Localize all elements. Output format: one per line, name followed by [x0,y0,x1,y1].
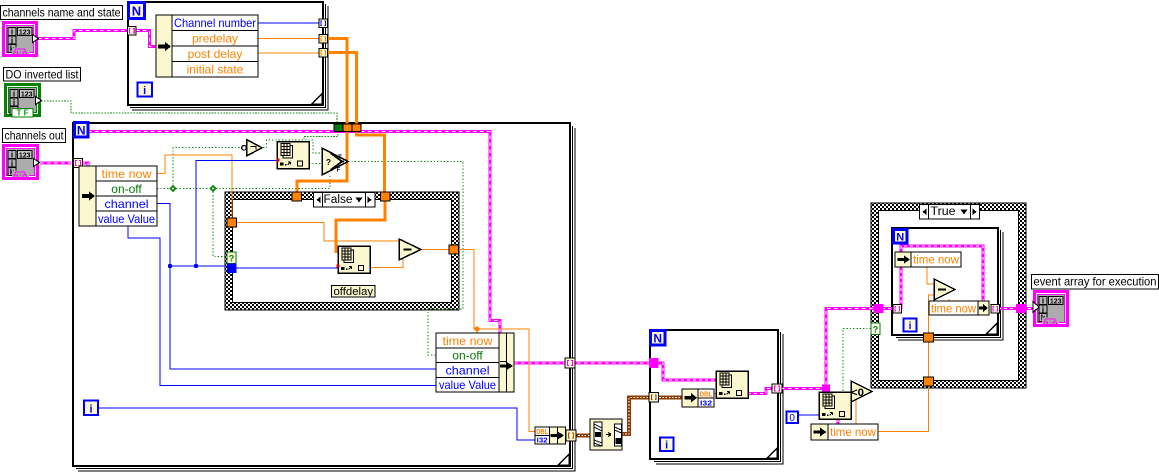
tunnel: L1 left input (pink brackets) [128,27,137,36]
svg-text:?: ? [326,157,331,167]
selector label: case C1 False [314,193,376,208]
wire: post delay row to L1 tunnel (orange) [258,52,319,54]
svg-text:offdelay: offdelay [334,286,374,298]
tunnel: L3 left brown brackets [649,393,659,403]
svg-text:N: N [896,232,904,244]
unbundle U7: time now (below True case) [811,424,878,440]
label: channels name and state [1,6,123,20]
junction: green diamond 1 [169,185,177,193]
constant: 0 [787,412,799,424]
wire: channel branch to case C1 blue tunnel (blue) [170,265,230,267]
svg-text:T: T [338,155,342,161]
svg-text:on-off: on-off [111,182,142,196]
wire: time now from U2 to case C1 left tunnel (orange) [157,155,232,219]
svg-text:initial state: initial state [187,63,244,77]
wire: U3 DBL stub to index array I3 (orange) [714,393,717,395]
unbundle U1: Channel number/predelay/post delay/initial state [156,15,258,77]
svg-text:channels out: channels out [5,129,65,143]
terminal: channels name and state (pink array control) [3,22,38,55]
wire: pink stub I4 to unbundle U7 [837,419,839,425]
svg-text:I32: I32 [700,401,712,408]
i box: L4 iteration terminal [904,319,917,333]
tunnel: L3 right pink brackets [772,384,782,393]
wire: channels name and state to L1 tunnel (pink array) [38,31,128,39]
i box: L3 iteration terminal [660,438,674,452]
subtract function 2 (inside L4) [934,279,955,300]
for-loop L4 frame (inside True case) [892,228,1003,340]
wire: predelay array inside L2 to case C1 tunnel (orange thick) [297,130,347,193]
tunnel: case C1 left time now (orange) [227,218,237,227]
terminal: DO inverted list (green boolean array control) [5,84,41,117]
svg-text:?: ? [229,254,235,264]
tunnel: L2 top orange solid (predelay in) [343,124,352,132]
label: offdelay [332,286,376,298]
tunnel: case C1 right offdelay out (orange) [449,245,459,254]
wire: U5 time now to subtract2 x input (orange) [927,267,934,284]
wire: on-off branch to diamond 2 and select f input (green dotted) [173,174,330,189]
N box: L3 count terminal [651,331,666,346]
wire: subtract output to case C1 right tunnel (orange) [421,249,450,251]
svg-text:time now: time now [102,167,152,181]
index array I1 [277,142,310,169]
unbundle U3: cluster to DBL + I32 [682,389,714,408]
wire: L4 output through True case to indicator (pink array) [998,308,1033,310]
svg-text:predelay: predelay [192,32,238,46]
wire: predelay array to index array I2 (orange thick) [336,200,385,253]
bundle B1: time now/on-off/channel/value Value [436,333,514,392]
NOT gate [242,140,262,157]
N box: L1 count terminal [129,3,145,19]
terminal: event array for execution (pink array indicator) [1033,291,1068,325]
wire: index array I3 output to L3 right tunnel (pink) [748,389,773,394]
wire: channel from U2 down to bundle B1 (blue) [157,204,436,370]
svg-text:time now: time now [931,302,976,316]
sort 1D array icon [590,419,622,450]
unbundle U5: time now (inside L4) [895,252,961,267]
wire: L3 output up to True case (pink array) [781,309,874,389]
tunnel: L2 right event array out (pink brackets) [565,358,575,368]
wire: L1 tunnel to unbundle U1 (pink) [136,31,157,47]
wire: less-than result to True case selector tunnel (green dotted) [843,329,871,393]
wire: channel branch up to index array I1 (blue) [196,161,277,267]
svg-text:time now: time now [830,425,876,439]
svg-text:T F: T F [17,109,29,118]
N box: L4 count terminal [894,230,908,244]
wire: True case tunnel to L4 tunnel (pink) [882,308,894,310]
selector label: case C2 True [920,205,980,220]
i box: L1 iteration terminal [138,83,153,98]
tunnel: L2 top orange solid 2 (post delay in) [352,124,361,132]
tunnel: L4 left pink brackets [893,305,902,314]
wire: offdelay value to bundle B1 time now and DBL bundle (orange) [457,250,535,432]
svg-text:DBL: DBL [536,429,549,436]
svg-text:channel: channel [446,363,490,377]
svg-text:i: i [665,440,668,452]
wire: L2 tunnel to unbundle U2 stub (pink) [82,163,88,166]
index array I3 (inside L3) [716,371,748,398]
wire: L3 tunnel to unbundle U3 (brown) [656,397,682,399]
svg-text:N: N [132,4,141,19]
N box: L2 count terminal [75,123,89,138]
terminal: channels out (pink array control) [3,145,39,178]
junction: blue dot 1 [168,264,172,268]
wire: L4 inside pink loop route to bundle B6 [901,246,983,309]
tunnel: L3 left pink solid [649,358,659,368]
wire: bundle B1 output to L3 (pink array) [514,362,651,364]
tunnel: case C2 left pink solid [874,304,884,313]
case structure C1 border (False case) [225,192,459,310]
svg-text:channel: channel [105,197,149,211]
unbundle U2: time now/on-off/channel/value Value [79,166,157,226]
junction: blue dot 2 [194,264,198,268]
wire: subtract2 output stub into bundle B6 (orange) [948,299,950,302]
wire: sort output to L3 tunnel (brown) [622,398,651,435]
tunnel: case C1 top post delay (orange) [381,192,391,201]
svg-text:N: N [653,332,662,346]
i box: L2 iteration terminal [84,401,98,416]
select function [322,148,348,175]
tunnel: case C1 selector ? (green) [227,252,236,264]
tunnel: case C2 right pink solid [1016,304,1026,313]
index array I4 (event lookup) [819,392,851,419]
tunnel: L2 left channels out (pink brackets) [74,159,83,168]
wire: on-off to NOT gate (green dotted) [157,148,242,189]
svg-text:value Value: value Value [439,378,496,392]
svg-text:False: False [324,194,353,206]
less-than-0 comparison [851,381,872,402]
wire: post delay array inside L2 to case C1 tunnel (orange thick) [357,130,385,193]
tunnel: L1 right Channel number (blue brackets) [319,19,328,28]
wire: True case bottom tunnel to L4 bottom tunnel (orange) [928,342,930,378]
wire: channels out to L2 tunnel (pink array) [40,162,71,164]
junction: pink wire junction at x=826 [822,385,830,393]
wire: DO inverted list boolean array to L2 tunnel (green) [41,101,337,124]
wire: iteration i to DBL-I32 bundle (blue) [98,408,535,440]
svg-text:event array for execution: event array for execution [1034,275,1157,289]
wire: index array I1 output to select (green dotted) [309,163,322,165]
index array I2 (offdelay lookup) [337,246,371,273]
svg-text:time now: time now [443,334,493,348]
svg-text:channels name and state: channels name and state [3,6,121,20]
wire: on-off branch down to case tunnel ? (green dotted) [213,189,227,257]
svg-text:I32: I32 [537,438,548,445]
subtract function 1 [399,239,421,260]
tunnel: L1 right predelay (orange brackets) [319,35,328,44]
for-loop L2 frame (big middle loop) [73,123,575,471]
label: event array for execution [1032,275,1159,290]
tunnel: L2 right DBL-I32 cluster out (brown brackets) [566,430,576,441]
svg-text:<0: <0 [851,387,864,399]
for-loop L1 frame (top-left) [128,2,328,110]
tunnel: L2 top green solid (DO inverted list in) [334,124,343,132]
svg-text:F: F [337,168,341,174]
wire: pink branch down into index array I4 [825,386,827,392]
wire: 0 constant to index array I4 (blue) [798,414,819,416]
svg-text:?: ? [873,325,879,335]
wire: Channel number row to L1 tunnel (blue) [258,22,319,24]
svg-text:True: True [931,206,956,218]
svg-text:on-off: on-off [452,349,483,363]
for-loop L3 frame (bottom middle) [650,330,783,464]
svg-text:i: i [143,85,146,97]
wire: boolean array inside L2 from tunnel (green) [304,131,338,141]
wire: index array I2 output to subtract y input (orange) [370,259,403,268]
wire: case C1 blue tunnel to index array I2 (blue) [235,267,338,269]
bundle B3: DBL + I32 to cluster [535,427,566,445]
wire: select output to bundle on-off (green dotted) [348,162,463,356]
tunnel: case C2 selector ? (green) [871,323,880,335]
svg-text:i: i [909,321,912,332]
svg-text:value Value: value Value [98,212,155,226]
wire: case C1 left tunnel to subtract x input (orange) [235,223,400,242]
tunnel: case C1 top predelay (orange) [292,192,302,201]
tunnel: L1 right post delay (orange brackets) [319,49,328,58]
wire: post delay array to L2 tunnel (orange thick) [327,53,357,126]
wire: L3 inside pink to index array I3 [656,363,716,380]
wire: value Value from U2 to bundle B1 (blue) [128,226,436,386]
wire: predelay row to L1 tunnel (orange) [258,38,319,40]
tunnel: L4 right pink brackets [991,305,1000,314]
label: DO inverted list [4,68,81,82]
svg-text:Channel number: Channel number [174,16,256,30]
wire: predelay array to L2 tunnel (orange thick) [327,39,347,126]
wire: time now up into less-than y input (orange) [855,399,857,425]
svg-text:time now: time now [913,253,959,267]
wire: U7 time now to True case bottom tunnel (orange) [878,386,929,432]
wire: DBL-I32 cluster to sort (brown) [575,435,590,437]
tunnel: case C1 left channel (blue solid) [227,264,237,274]
case structure C2 border (True case) [871,203,1026,388]
wire: L4 bottom tunnel up to subtract2 y input (orange) [929,295,935,333]
svg-text:post delay: post delay [188,47,243,61]
svg-text:N: N [77,124,86,138]
junction: green diamond 2 [209,185,217,193]
svg-text:0: 0 [789,413,795,424]
tunnel: L4 bottom orange [924,333,934,342]
svg-text:DBL: DBL [700,392,714,399]
svg-text:i: i [89,404,92,416]
wire: main pink array along top of L2 down to bundle B1 [88,132,500,334]
wire: NOT output to select t input (green dotted) [263,140,322,153]
bundle B6: time now (inside L4) [929,301,989,316]
svg-text:DO inverted list: DO inverted list [6,68,80,82]
label: channels out [3,129,66,143]
tunnel: case C2 bottom orange [924,377,934,386]
